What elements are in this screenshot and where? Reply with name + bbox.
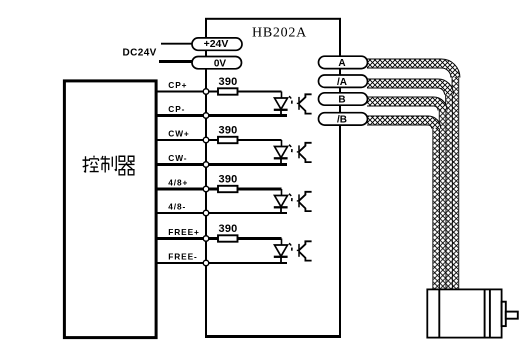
svg-text:4/8-: 4/8- <box>168 201 186 211</box>
wire 0V lead <box>159 60 193 63</box>
terminal A <box>319 56 368 69</box>
svg-text:CW-: CW- <box>168 153 187 163</box>
motor body <box>427 289 501 337</box>
svg-text:FREE-: FREE- <box>168 251 197 261</box>
wire CP- <box>156 114 287 117</box>
cable B <box>367 102 443 291</box>
wire +24V lead <box>161 43 192 45</box>
wire LED4 drop <box>281 239 283 246</box>
svg-text:390: 390 <box>219 223 238 235</box>
phototransistor Q1 <box>297 94 312 113</box>
wire FREE+ <box>156 237 282 240</box>
wire 4/8- <box>156 212 287 214</box>
light arrow 2 <box>289 145 292 153</box>
svg-text:CP+: CP+ <box>168 80 187 90</box>
svg-text:0V: 0V <box>214 58 227 69</box>
driver box HB202A <box>206 19 340 337</box>
motor rear cap lines <box>484 289 486 337</box>
node 4/8- <box>203 210 209 216</box>
svg-text:HB202A: HB202A <box>252 25 307 40</box>
wire LED1 drop <box>281 92 283 99</box>
resistor R3 <box>218 186 238 192</box>
node CP+ <box>203 89 209 95</box>
svg-text:+24V: +24V <box>204 38 229 50</box>
light arrow 3 <box>289 194 292 202</box>
wire CP+ <box>156 91 282 93</box>
node CW- <box>203 162 209 168</box>
wire LED3 drop <box>281 189 283 196</box>
svg-text:/B: /B <box>337 115 347 126</box>
terminal +24V <box>192 38 242 50</box>
svg-text:390: 390 <box>219 125 238 137</box>
wire CW+ <box>156 139 282 141</box>
svg-text:4/8+: 4/8+ <box>168 177 188 187</box>
phototransistor Q4 <box>297 241 312 260</box>
driver box bottom edge <box>205 335 341 338</box>
light arrow 4 <box>289 243 292 251</box>
motor shaft flange <box>502 302 506 326</box>
LED D4 <box>274 245 288 263</box>
wire FREE- <box>156 262 287 264</box>
motor front cap line <box>438 289 440 337</box>
label 控制器 <box>83 156 135 175</box>
phototransistor Q3 <box>297 192 312 211</box>
cable /A <box>367 84 449 291</box>
LED D2 <box>274 147 288 165</box>
node CW+ <box>203 137 209 143</box>
terminal 0V <box>192 57 242 70</box>
phototransistor Q2 <box>297 143 312 162</box>
svg-text:CW+: CW+ <box>168 128 189 138</box>
svg-text:DC24V: DC24V <box>123 48 157 59</box>
wire 4/8+ <box>156 188 282 191</box>
cable /B <box>367 121 436 291</box>
terminal /B <box>319 113 368 126</box>
terminal B <box>319 93 368 106</box>
node CP- <box>203 113 209 119</box>
svg-text:390: 390 <box>219 76 238 88</box>
LED D3 <box>274 196 288 214</box>
svg-text:A: A <box>338 58 345 69</box>
svg-text:B: B <box>338 95 345 106</box>
cable A <box>367 64 455 291</box>
svg-text:CP-: CP- <box>168 104 185 114</box>
LED D1 <box>274 98 288 116</box>
light arrow 1 <box>289 96 292 104</box>
resistor R2 <box>218 137 238 143</box>
svg-text:/A: /A <box>337 77 347 88</box>
resistor R4 <box>218 235 238 241</box>
svg-text:390: 390 <box>219 174 238 186</box>
motor shaft <box>506 312 518 319</box>
terminal /A <box>319 75 368 88</box>
node FREE+ <box>203 236 209 242</box>
resistor R1 <box>218 88 238 94</box>
wire CW- <box>156 163 287 166</box>
wire LED2 drop <box>281 140 283 147</box>
controller box <box>64 81 156 338</box>
node FREE- <box>203 260 209 266</box>
svg-text:FREE+: FREE+ <box>168 227 199 237</box>
node 4/8+ <box>203 186 209 192</box>
